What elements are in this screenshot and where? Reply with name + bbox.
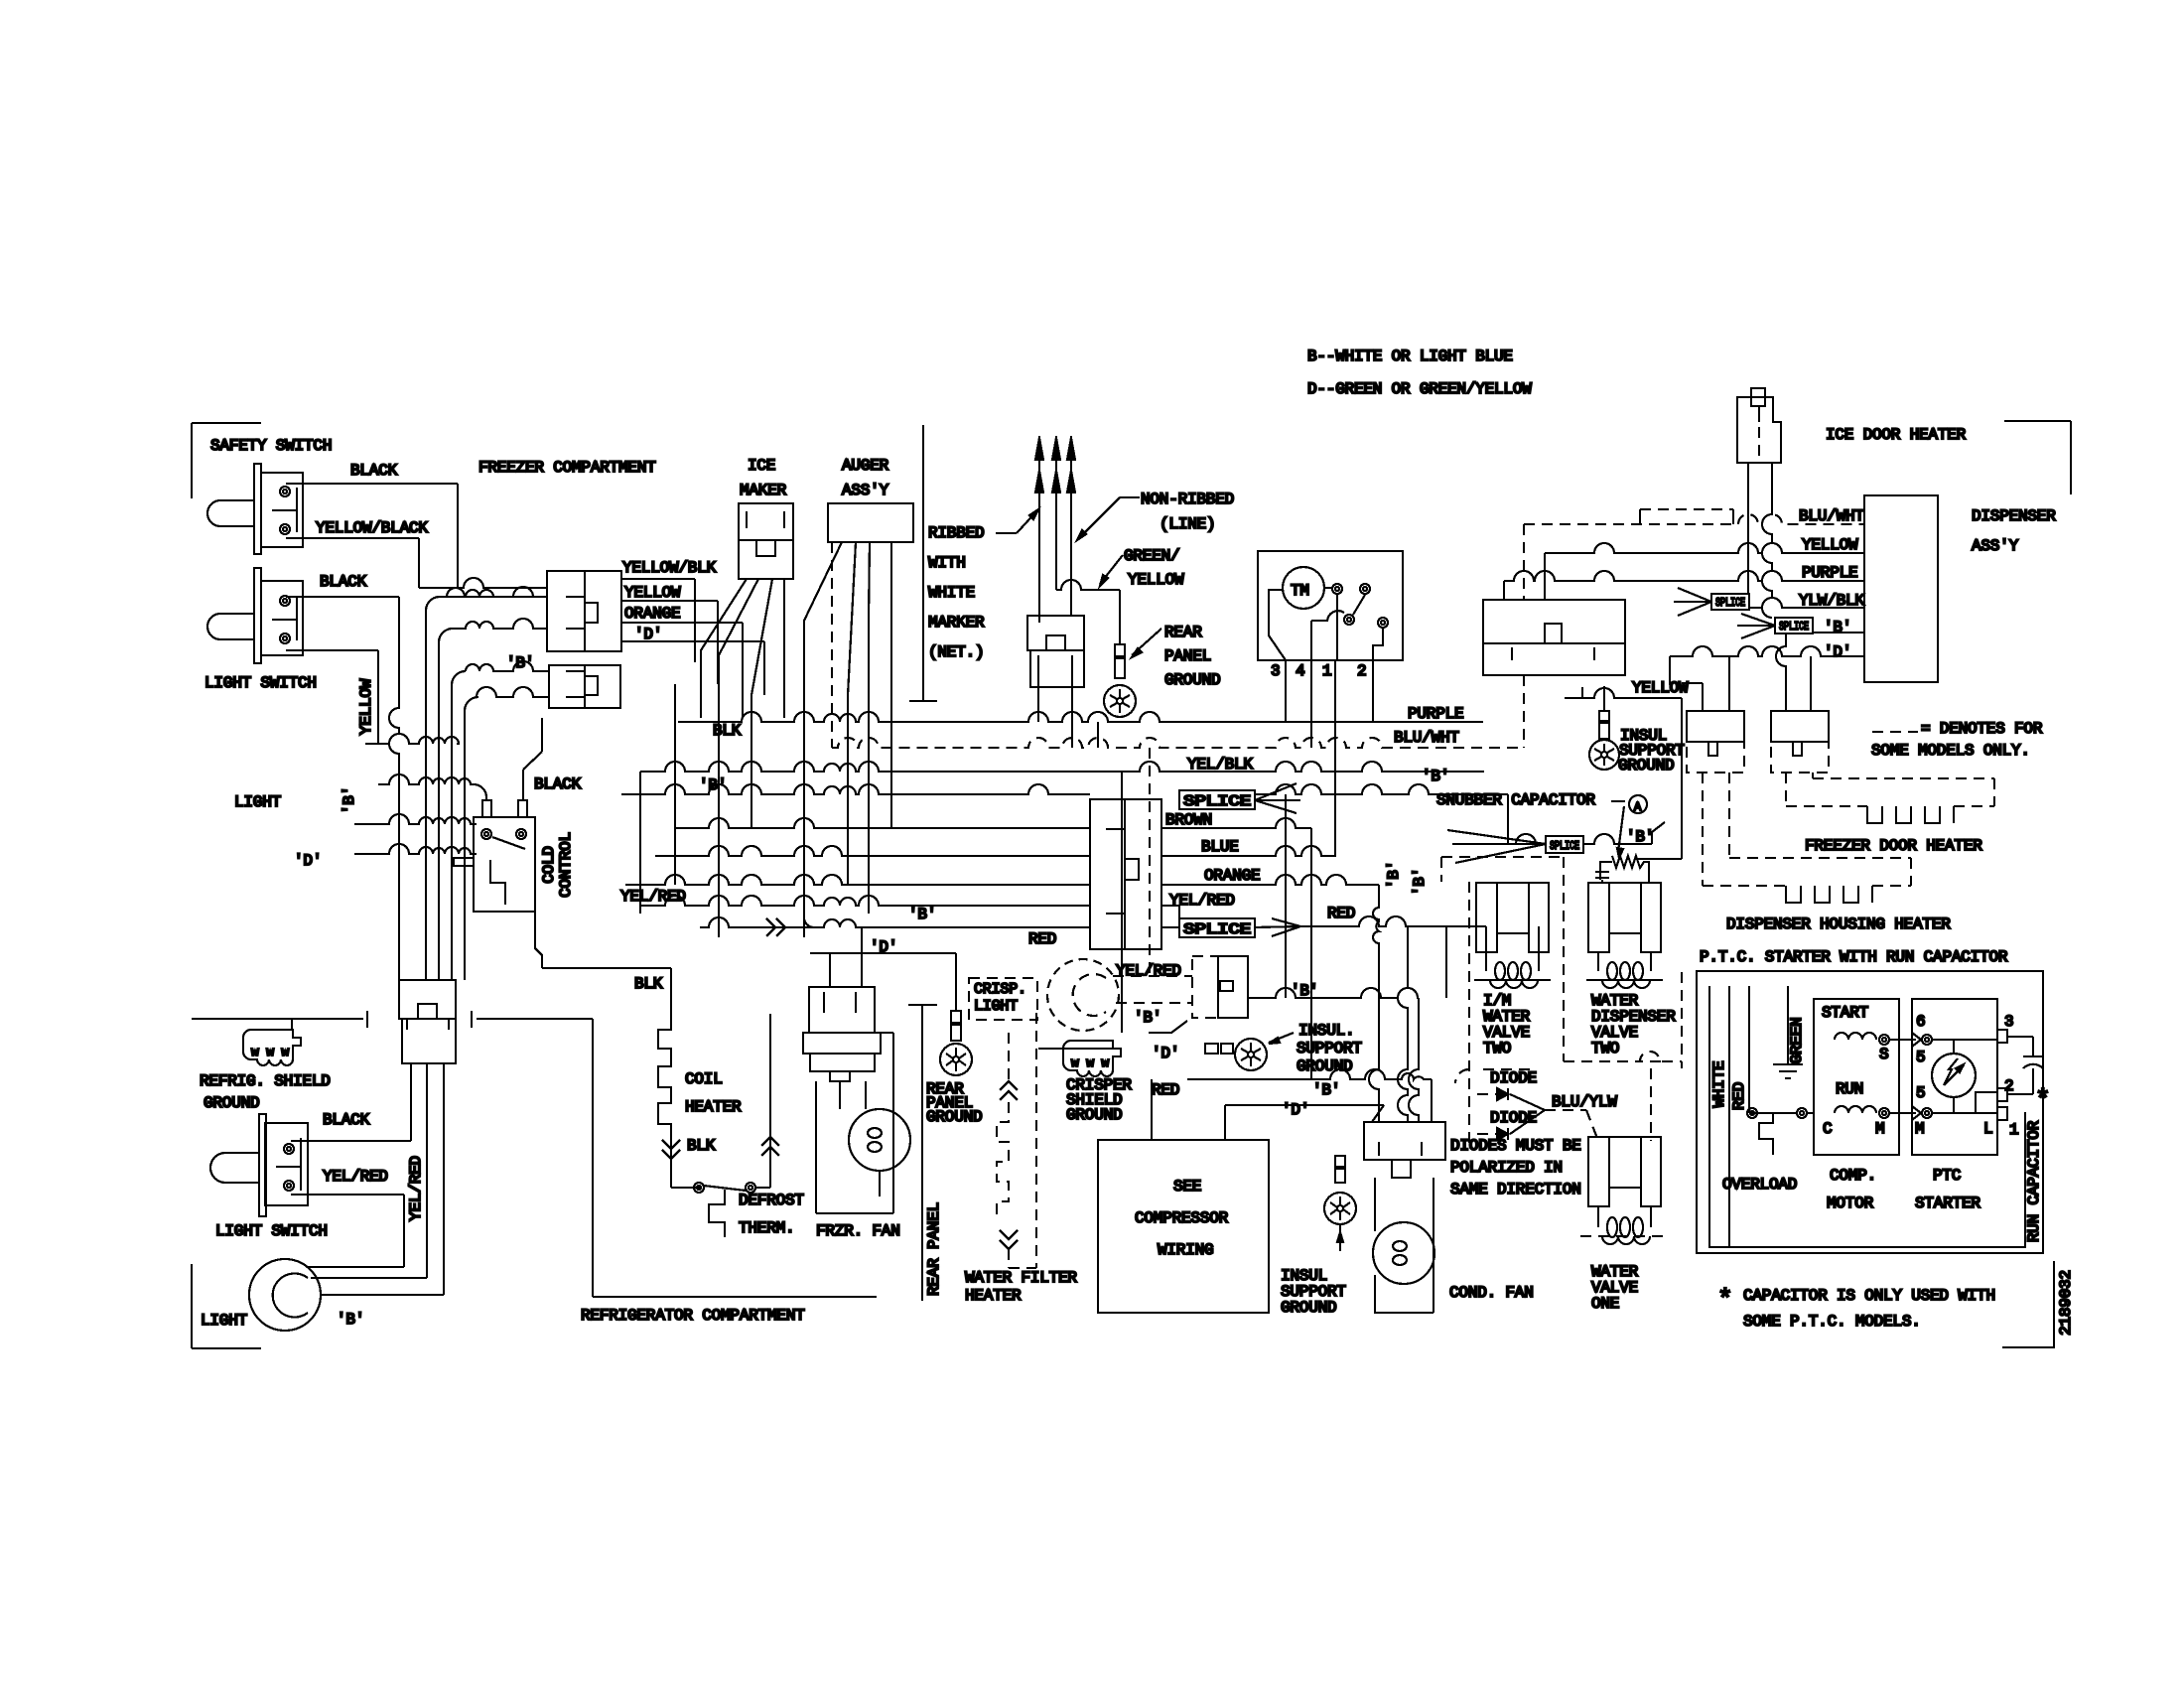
wire yel/red bus xyxy=(640,896,1179,918)
ice door heater plug xyxy=(1737,388,1781,463)
svg-text:P.T.C. STARTER WITH RUN CAPACI: P.T.C. STARTER WITH RUN CAPACITOR xyxy=(1700,948,2008,966)
see compressor wiring box xyxy=(1098,1140,1269,1313)
leader ribbed xyxy=(996,509,1038,533)
ground symbol xyxy=(1773,1064,1803,1078)
power line 1 xyxy=(1035,436,1043,623)
dispenser assy box xyxy=(1864,495,1938,682)
label I/M WATER VALVE TWO xyxy=(1483,992,1531,1057)
svg-text:SPLICE: SPLICE xyxy=(1183,793,1251,810)
wire plug right xyxy=(1762,463,1772,618)
svg-text:GROUND: GROUND xyxy=(1164,671,1220,689)
wire d crisp xyxy=(1038,1021,1187,1049)
svg-text:= DENOTES FOR: = DENOTES FOR xyxy=(1921,720,2043,738)
svg-text:ORANGE: ORANGE xyxy=(1204,867,1260,885)
label SOME MODELS ONLY xyxy=(1871,742,2030,760)
svg-text:ONE: ONE xyxy=(1591,1295,1619,1313)
svg-text:SAME DIRECTION: SAME DIRECTION xyxy=(1450,1181,1581,1198)
cond fan connector xyxy=(1364,1122,1445,1178)
wire fdh left top xyxy=(1682,656,1729,711)
svg-text:YEL/RED: YEL/RED xyxy=(407,1156,425,1221)
cold control step xyxy=(454,858,505,905)
label YEL/RED left xyxy=(620,888,686,906)
label D mid xyxy=(810,927,956,1011)
rear panel ground 2 stem xyxy=(951,1011,961,1041)
svg-text:YELLOW/BLACK: YELLOW/BLACK xyxy=(316,519,428,537)
leader non-ribbed xyxy=(1077,497,1140,540)
svg-text:2189032: 2189032 xyxy=(2057,1270,2075,1336)
svg-text:GROUND: GROUND xyxy=(204,1094,259,1112)
wire b bus xyxy=(621,784,1508,794)
label B right of splice xyxy=(1626,828,1654,846)
svg-text:CRISP.: CRISP. xyxy=(974,981,1026,998)
wire maze d xyxy=(1038,667,1072,748)
diode wires xyxy=(1510,1094,1598,1141)
maze wire m1 xyxy=(426,597,547,980)
snubber leader xyxy=(1611,795,1647,814)
timer wire 2 xyxy=(1372,660,1374,722)
splice S1 xyxy=(1179,790,1255,810)
wires above cond fan xyxy=(1398,926,1432,1122)
ptc disc xyxy=(1932,1054,1976,1097)
label M2 xyxy=(1915,1120,1924,1138)
svg-text:YEL/RED: YEL/RED xyxy=(620,888,686,906)
label PURPLE xyxy=(1408,705,1463,723)
wire b to valve xyxy=(1508,794,1546,844)
svg-text:BLK: BLK xyxy=(634,975,663,993)
corner bracket bottom-left xyxy=(192,1264,261,1348)
maze wire m2 xyxy=(439,619,547,980)
net boundary line xyxy=(909,425,937,701)
timer pin 3 xyxy=(1271,662,1280,680)
corner bracket right xyxy=(2004,421,2071,494)
wire blu/wht xyxy=(1524,514,1864,748)
part number 2189032 xyxy=(2002,1261,2075,1347)
label WHITE rotated xyxy=(1710,1060,1728,1107)
label YELLOW rotated xyxy=(357,678,375,735)
svg-text:BROWN: BROWN xyxy=(1165,811,1212,829)
dashed box im valve xyxy=(1441,857,1564,1144)
light switch S2 xyxy=(207,568,303,663)
label CRISPER SHIELD GROUND xyxy=(1066,1076,1132,1124)
label GROUND xyxy=(204,1094,259,1112)
svg-text:GROUND: GROUND xyxy=(1281,1299,1336,1317)
label WATER DISPENSER VALVE TWO xyxy=(1591,992,1676,1057)
coil heater left xyxy=(658,1014,671,1188)
wire yellow/black from S1 xyxy=(286,538,547,588)
label D www xyxy=(1152,1045,1179,1062)
asterisk note xyxy=(1717,1285,1995,1331)
svg-text:WHITE: WHITE xyxy=(928,584,975,602)
svg-text:SEE: SEE xyxy=(1173,1178,1201,1196)
svg-text:CONTROL: CONTROL xyxy=(557,832,575,898)
svg-text:w w w: w w w xyxy=(1071,1055,1109,1070)
svg-text:HEATER: HEATER xyxy=(685,1098,742,1116)
label LIGHT xyxy=(201,1312,247,1330)
run coil xyxy=(1835,1106,1889,1118)
frzr fan bottom xyxy=(816,1033,893,1213)
legend line D xyxy=(1307,380,1532,398)
label BLK low xyxy=(634,975,663,993)
label D xyxy=(294,852,322,870)
cold control screws xyxy=(481,829,526,849)
svg-text:'B': 'B' xyxy=(1411,868,1429,896)
label LIGHT xyxy=(234,793,281,811)
wire light top xyxy=(311,1063,427,1278)
label WATER VALVE ONE xyxy=(1591,1263,1639,1313)
label BLACK xyxy=(320,573,367,591)
label BLU/WHT xyxy=(1799,507,1864,525)
svg-text:INSUL.: INSUL. xyxy=(1298,1022,1354,1040)
wire crisp yelred xyxy=(1113,976,1192,1003)
coil heater bottom xyxy=(671,1183,770,1193)
wire yel/red S3 xyxy=(291,1195,404,1267)
label YEL/RED j8 xyxy=(1169,892,1235,910)
svg-text:COLD: COLD xyxy=(540,846,558,884)
svg-text:HEATER: HEATER xyxy=(965,1287,1022,1305)
maze wire m4 xyxy=(465,687,549,980)
svg-text:GROUND: GROUND xyxy=(1618,757,1674,774)
label YELLOW/BLACK xyxy=(316,519,428,537)
label INSUL SUPPORT GROUND 2 xyxy=(1281,1267,1346,1317)
svg-text:'B': 'B' xyxy=(1312,1081,1340,1099)
wire orange bus xyxy=(625,875,1379,885)
label BLACK cc xyxy=(534,775,582,793)
wire yellow right xyxy=(1565,687,1682,859)
wire blue bus xyxy=(655,846,1336,856)
label B rot mid2 xyxy=(1411,868,1429,896)
label RED right xyxy=(1327,905,1355,922)
label FREEZER COMPARTMENT xyxy=(478,459,656,477)
snubber capacitor xyxy=(1595,856,1649,883)
svg-text:BLU/WHT: BLU/WHT xyxy=(1394,729,1459,747)
label GREEN rotated xyxy=(1788,1017,1806,1063)
svg-text:REAR: REAR xyxy=(1164,624,1202,641)
wire b down2 xyxy=(1187,1069,1432,1099)
crisp light box xyxy=(969,978,1037,1020)
corner bracket top-left xyxy=(192,423,261,498)
maze wire m1h xyxy=(440,587,547,597)
wire maze c xyxy=(848,718,869,914)
leader insul2 xyxy=(1337,1224,1343,1251)
label COMPRESSOR xyxy=(1135,1209,1229,1227)
svg-text:1: 1 xyxy=(2009,1121,2018,1139)
svg-text:BLU/YLW: BLU/YLW xyxy=(1552,1093,1617,1111)
label YELLOW/BLK xyxy=(622,559,717,577)
overload screws xyxy=(1747,1108,1807,1118)
svg-text:(LINE): (LINE) xyxy=(1160,515,1215,533)
svg-text:FREEZER COMPARTMENT: FREEZER COMPARTMENT xyxy=(478,459,656,477)
svg-text:RED: RED xyxy=(1730,1082,1748,1110)
wire from S2 bottom xyxy=(286,650,378,744)
label WHITE xyxy=(928,584,975,602)
label B xyxy=(506,654,534,672)
svg-text:PANEL: PANEL xyxy=(1164,647,1211,665)
label REAR PANEL GROUND xyxy=(1164,624,1220,689)
svg-text:6: 6 xyxy=(1916,1013,1925,1031)
crisper lamp xyxy=(1047,959,1119,1031)
run capacitor xyxy=(2007,1037,2043,1094)
freezer door heater element xyxy=(1786,773,1994,823)
splice S-A xyxy=(1711,594,1749,610)
svg-text:LIGHT: LIGHT xyxy=(201,1312,247,1330)
svg-text:ICE: ICE xyxy=(748,457,775,475)
svg-text:LIGHT: LIGHT xyxy=(974,998,1018,1015)
label COIL HEATER xyxy=(685,1070,742,1116)
svg-text:POLARIZED IN: POLARIZED IN xyxy=(1450,1159,1563,1177)
wire maze a xyxy=(719,718,804,937)
svg-text:BLK: BLK xyxy=(687,1137,716,1155)
label ORANGE xyxy=(624,605,680,623)
svg-text:SPLICE: SPLICE xyxy=(1183,921,1251,938)
label DISPENSER xyxy=(1972,507,2056,525)
wire b drop xyxy=(1286,794,1379,1122)
svg-text:C: C xyxy=(1823,1120,1832,1138)
label GREEN/ xyxy=(1124,547,1179,565)
svg-text:YEL/RED: YEL/RED xyxy=(1169,892,1235,910)
svg-text:3: 3 xyxy=(1271,662,1280,680)
svg-text:2: 2 xyxy=(1357,662,1366,680)
label YEL/RED rotated xyxy=(407,1156,425,1221)
svg-text:RED: RED xyxy=(1327,905,1355,922)
connector J1 xyxy=(547,571,621,651)
svg-text:*: * xyxy=(2035,1085,2050,1115)
svg-text:DIODE: DIODE xyxy=(1490,1109,1537,1127)
dispenser housing heater element xyxy=(1703,773,1911,903)
svg-text:YELLOW/BLK: YELLOW/BLK xyxy=(622,559,717,577)
label YELLOW xyxy=(1128,571,1184,589)
wire j1 orange xyxy=(621,623,764,718)
label RED rotated xyxy=(1730,1082,1748,1110)
svg-text:YELLOW: YELLOW xyxy=(1802,536,1858,554)
wire d down2 xyxy=(1225,1101,1384,1140)
wire yel/blk bus xyxy=(640,762,1484,772)
label WIRING xyxy=(1158,1241,1213,1259)
label S xyxy=(1879,1046,1888,1063)
insul ground 1 stem xyxy=(1205,1044,1233,1054)
label START xyxy=(1822,1004,1868,1022)
label MARKER xyxy=(928,614,985,632)
label REAR PANEL GROUND 2 xyxy=(926,1080,982,1126)
svg-text:COND. FAN: COND. FAN xyxy=(1449,1284,1534,1302)
svg-text:RED: RED xyxy=(1028,930,1056,948)
svg-text:RED: RED xyxy=(1152,1081,1179,1099)
wire purple bus xyxy=(678,712,1483,722)
wire bus to refrig shield xyxy=(192,1011,367,1028)
svg-text:BLACK: BLACK xyxy=(320,573,367,591)
timer wire 4 xyxy=(1310,660,1312,748)
label B xyxy=(337,1311,364,1329)
wires from ice maker xyxy=(701,579,784,927)
fdh connector right xyxy=(1771,711,1829,773)
label YEL/RED below xyxy=(1116,962,1181,980)
svg-text:'D': 'D' xyxy=(1824,643,1851,661)
label SAFETY SWITCH xyxy=(210,437,332,455)
svg-text:SOME MODELS ONLY.: SOME MODELS ONLY. xyxy=(1871,742,2030,760)
label D xyxy=(1824,643,1851,661)
label AUGER ASS'Y xyxy=(842,457,889,499)
svg-text:D--GREEN OR GREEN/YELLOW: D--GREEN OR GREEN/YELLOW xyxy=(1307,380,1532,398)
wire ylw/blk disp xyxy=(1674,588,1864,616)
svg-text:'B': 'B' xyxy=(1385,861,1403,889)
wire red ptc xyxy=(1749,986,1777,1113)
svg-text:YEL/BLK: YEL/BLK xyxy=(1187,756,1253,774)
label D xyxy=(634,626,662,643)
wire yellow down xyxy=(1603,686,1605,711)
svg-text:M: M xyxy=(1875,1120,1884,1138)
label 1 xyxy=(2009,1121,2018,1139)
light lamp xyxy=(249,1259,321,1331)
label CRISP LIGHT xyxy=(974,981,1026,1015)
svg-text:'B': 'B' xyxy=(908,906,936,923)
svg-text:RUN: RUN xyxy=(1836,1080,1863,1098)
svg-text:PURPLE: PURPLE xyxy=(1802,564,1857,582)
svg-text:TM: TM xyxy=(1291,582,1309,600)
label COMP MOTOR xyxy=(1827,1167,1876,1212)
svg-text:DIODE: DIODE xyxy=(1490,1069,1537,1087)
wire maze e xyxy=(1097,722,1099,748)
label BLUE xyxy=(1201,838,1239,856)
legend line B xyxy=(1307,348,1513,365)
label COLD CONTROL rotated xyxy=(540,832,575,898)
frzr fan legs xyxy=(816,1081,880,1213)
label 6 xyxy=(1916,1013,1925,1031)
wire blu/wht dashed bus xyxy=(832,738,1524,748)
svg-text:DEFROST: DEFROST xyxy=(739,1192,804,1209)
svg-text:GROUND: GROUND xyxy=(1066,1106,1122,1124)
connector J8 xyxy=(1090,799,1161,949)
insul ground stem 3 xyxy=(1599,711,1609,739)
svg-text:DIODES MUST BE: DIODES MUST BE xyxy=(1450,1137,1581,1155)
rear panel ground bulb xyxy=(1104,685,1136,717)
label B snubber xyxy=(1422,768,1449,785)
svg-text:RIBBED: RIBBED xyxy=(928,524,984,542)
svg-text:5: 5 xyxy=(1916,1049,1925,1066)
svg-text:AUGER: AUGER xyxy=(842,457,889,475)
label ASS'Y xyxy=(1972,537,2019,555)
svg-text:'D': 'D' xyxy=(1282,1101,1309,1119)
svg-text:MOTOR: MOTOR xyxy=(1827,1195,1874,1212)
svg-text:BLACK: BLACK xyxy=(350,462,398,480)
svg-text:SPLICE: SPLICE xyxy=(1550,839,1579,853)
svg-text:YELLOW: YELLOW xyxy=(357,678,375,735)
wire black from S2 xyxy=(286,597,399,980)
svg-text:WHITE: WHITE xyxy=(1710,1060,1728,1107)
svg-text:TWO: TWO xyxy=(1483,1040,1511,1057)
maze row 860 xyxy=(354,844,477,854)
label COND. FAN xyxy=(1449,1284,1534,1302)
label YELLOW xyxy=(624,584,681,602)
wire crisp drop xyxy=(1122,748,1150,1033)
dashed hop detail xyxy=(1640,509,1733,524)
svg-text:BLACK: BLACK xyxy=(323,1111,370,1129)
svg-text:ASS'Y: ASS'Y xyxy=(1972,537,2019,555)
svg-text:NON-RIBBED: NON-RIBBED xyxy=(1141,491,1234,508)
label REFRIG. SHIELD xyxy=(200,1072,331,1090)
green wire xyxy=(1787,986,1789,1064)
water dispenser valve two xyxy=(1586,883,1663,988)
svg-text:SPLICE: SPLICE xyxy=(1779,620,1809,633)
auger connector xyxy=(828,503,913,542)
wire blk drop xyxy=(671,968,716,1155)
wire cc loop xyxy=(535,912,671,968)
label RUN CAPACITOR rotated xyxy=(2025,1120,2043,1242)
insul ground 1 xyxy=(1235,1039,1267,1070)
ptc starter box xyxy=(1912,999,1997,1155)
ptc terminal top xyxy=(1899,1033,1932,1047)
cond fan motor xyxy=(1373,1222,1434,1284)
splice s2 fan xyxy=(1255,918,1300,936)
svg-text:SPLICE: SPLICE xyxy=(1715,596,1745,610)
timer wire 3 xyxy=(1285,660,1287,722)
svg-text:'B': 'B' xyxy=(1824,619,1851,636)
legend dashes xyxy=(1872,731,1918,733)
label 3 xyxy=(2004,1013,2013,1031)
label RUN xyxy=(1836,1080,1863,1098)
svg-text:REFRIG. SHIELD: REFRIG. SHIELD xyxy=(200,1072,331,1090)
label YEL/BLK xyxy=(1187,756,1253,774)
wire red to valve xyxy=(1300,916,1486,926)
svg-text:S: S xyxy=(1879,1046,1888,1063)
timer pin 2 xyxy=(1357,662,1366,680)
svg-text:DISPENSER HOUSING HEATER: DISPENSER HOUSING HEATER xyxy=(1726,915,1951,933)
svg-text:STARTER: STARTER xyxy=(1915,1195,1980,1212)
svg-text:LIGHT SWITCH: LIGHT SWITCH xyxy=(205,674,317,692)
svg-text:GREEN: GREEN xyxy=(1788,1017,1806,1063)
svg-text:L: L xyxy=(1983,1120,1992,1138)
label BLACK xyxy=(350,462,398,480)
coil heater right xyxy=(761,1014,779,1188)
label DEFROST THERM xyxy=(739,1192,804,1237)
svg-text:REFRIGERATOR COMPARTMENT: REFRIGERATOR COMPARTMENT xyxy=(581,1307,805,1325)
connector J7 xyxy=(1483,600,1625,675)
wire cc right xyxy=(523,718,542,800)
power line 2 xyxy=(1052,436,1060,590)
svg-text:COIL: COIL xyxy=(685,1070,723,1088)
svg-text:WIRING: WIRING xyxy=(1158,1241,1213,1259)
svg-text:4: 4 xyxy=(1296,662,1304,680)
rear panel line xyxy=(908,1005,937,1301)
frzr fan connector xyxy=(803,987,881,1081)
timer pin 4 xyxy=(1296,662,1304,680)
maze row yellow xyxy=(365,734,459,744)
svg-text:YELLOW: YELLOW xyxy=(1632,679,1689,697)
svg-text:'B': 'B' xyxy=(1134,1009,1161,1027)
label BLU/YLW xyxy=(1552,1093,1617,1111)
label BLACK xyxy=(323,1111,370,1129)
splice s3 fan xyxy=(1447,830,1546,863)
label YELLOW xyxy=(1802,536,1858,554)
svg-text:*: * xyxy=(1717,1285,1732,1315)
crisper shield ground xyxy=(1063,1041,1121,1076)
svg-text:'B': 'B' xyxy=(341,786,358,814)
leader green/yellow xyxy=(1100,555,1123,586)
splice S3 xyxy=(1546,836,1583,853)
svg-text:THERM.: THERM. xyxy=(739,1219,794,1237)
svg-text:BLK: BLK xyxy=(713,722,742,740)
coil heater arrows xyxy=(662,1140,680,1159)
svg-text:w w w: w w w xyxy=(251,1045,289,1059)
refrig shield ground xyxy=(243,1019,301,1065)
defrost therm step xyxy=(709,1190,725,1237)
wire light bottom xyxy=(320,1063,444,1295)
wire black from S1 xyxy=(286,484,458,588)
svg-text:BLU/WHT: BLU/WHT xyxy=(1799,507,1864,525)
wire ptc bottom xyxy=(1889,1112,1912,1114)
label RED splice xyxy=(1028,930,1056,948)
wire b disp xyxy=(1737,614,1864,638)
svg-text:3: 3 xyxy=(2004,1013,2013,1031)
label OVERLOAD xyxy=(1722,1176,1797,1194)
